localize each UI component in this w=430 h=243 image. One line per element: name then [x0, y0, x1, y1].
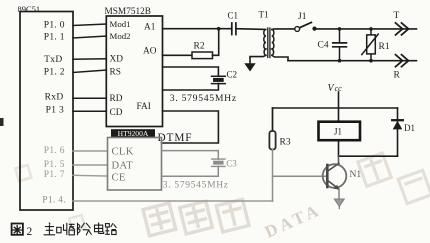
wire FAI to DTMF — [162, 111, 219, 143]
wire T1 primary to ground — [250, 55, 266, 63]
node junction R2/A1 — [217, 27, 221, 31]
svg-text:P1. 1: P1. 1 — [44, 33, 65, 43]
svg-text:RxD: RxD — [45, 93, 64, 103]
wire P1.5 to DAT (gray) — [73, 164, 108, 166]
svg-text:P1. 4.: P1. 4. — [42, 195, 66, 205]
svg-text:DTMF: DTMF — [158, 132, 193, 144]
svg-text:FAI: FAI — [137, 102, 151, 112]
watermark blobs — [15, 142, 430, 243]
IC HT9200A box (gray) — [108, 138, 162, 191]
wire D1 return — [339, 155, 398, 157]
svg-text:P1. 0: P1. 0 — [44, 21, 65, 31]
svg-text:CLK: CLK — [112, 147, 134, 158]
wire R3 to P1.4 (gray) — [272, 150, 274, 202]
crystal C2 — [212, 76, 226, 83]
wire P1.2 to RS — [73, 70, 106, 73]
svg-text:A1: A1 — [144, 23, 156, 33]
svg-text:R2: R2 — [194, 41, 205, 51]
svg-text:R: R — [394, 71, 401, 81]
resistor R2 — [192, 52, 213, 59]
svg-text:RD: RD — [110, 94, 123, 104]
diode D1 — [397, 108, 399, 156]
svg-text:R3: R3 — [280, 138, 291, 148]
svg-text:TxD: TxD — [44, 55, 62, 65]
svg-text:CE: CE — [112, 173, 126, 184]
varistor R1 — [369, 27, 373, 31]
caption: 图 2 主叫部分电路 — [12, 223, 117, 238]
svg-text:89C51: 89C51 — [18, 4, 41, 14]
svg-text:C4: C4 — [318, 41, 329, 51]
svg-text:T1: T1 — [259, 10, 269, 20]
svg-text:C3: C3 — [226, 158, 237, 168]
svg-text:R1: R1 — [379, 42, 390, 52]
wire top line to T — [317, 28, 417, 30]
resistor R3 — [272, 108, 274, 131]
wire J1 to collector node — [338, 140, 340, 156]
wire T1 secondary top to switch — [272, 28, 295, 31]
wire top rail — [273, 107, 398, 109]
crystal C3 upper wire (gray) — [162, 151, 219, 160]
MCU 89C51 box — [20, 12, 73, 211]
wire C1 to T1 — [236, 28, 265, 31]
svg-text:AO: AO — [143, 47, 157, 57]
svg-text:P1. 6: P1. 6 — [44, 146, 65, 156]
svg-text:D1: D1 — [404, 123, 415, 133]
svg-text:J1: J1 — [298, 12, 307, 22]
svg-text:3. 579545MHz: 3. 579545MHz — [170, 93, 237, 104]
wire Vcc down — [338, 92, 340, 122]
wire T1 secondary bottom — [272, 55, 288, 60]
wire P1.0 to Mod1 — [73, 24, 106, 26]
svg-text:P1. 5: P1. 5 — [44, 160, 65, 170]
svg-text:P1. 7: P1. 7 — [44, 170, 65, 180]
crystal C3 (gray) — [212, 159, 225, 166]
wire R2 to node — [213, 29, 219, 56]
svg-text:P1 3: P1 3 — [46, 106, 64, 116]
transistor N1 — [338, 156, 340, 164]
svg-text:MSM7512B: MSM7512B — [105, 7, 152, 17]
svg-text:DAT: DAT — [112, 161, 134, 172]
svg-text:2: 2 — [27, 226, 33, 238]
svg-text:T: T — [394, 11, 400, 21]
wire RxD to RD — [73, 97, 106, 99]
wire P1.3 to CD — [73, 110, 106, 112]
svg-text:Mod1: Mod1 — [110, 19, 131, 29]
wire base (gray) — [273, 175, 327, 177]
capacitor C4 — [338, 27, 342, 31]
wire TxD to XD — [73, 58, 106, 61]
wire bottom line to R — [288, 60, 417, 62]
svg-text:XD: XD — [110, 55, 124, 65]
svg-text:J1: J1 — [334, 127, 342, 137]
wire A0 to R2 — [163, 54, 193, 56]
svg-text:CD: CD — [110, 108, 123, 118]
crystal C3 lower wire (gray) — [162, 166, 219, 176]
IC HT9200A inverted label — [111, 129, 155, 137]
crystal C2 lower wire — [163, 84, 219, 90]
svg-text:Mod2: Mod2 — [110, 31, 131, 41]
wire P1.6 to CLK (gray) — [73, 150, 108, 152]
wire A1 to C1 — [163, 28, 232, 30]
wire emitter to ground (gray) — [338, 189, 340, 198]
wire P1.1 to Mod2 — [73, 36, 106, 38]
svg-text:3. 579545MHz: 3. 579545MHz — [163, 181, 229, 191]
ground (transformer primary) — [244, 63, 255, 71]
svg-text:HT9200A: HT9200A — [118, 129, 149, 138]
edge mark — [0, 118, 4, 126]
crystal C2 upper wire — [163, 67, 219, 76]
svg-text:N1: N1 — [350, 170, 362, 180]
wire P1.7 to CE (gray) — [73, 174, 108, 177]
ground (emitter) — [334, 199, 344, 207]
svg-text:C2: C2 — [227, 70, 238, 80]
capacitor C1 — [232, 23, 236, 35]
svg-text:RS: RS — [110, 68, 121, 78]
svg-text:C1: C1 — [228, 11, 239, 21]
modem IC MSM7512B box — [106, 16, 162, 127]
wire P1.4 long bottom (gray) — [73, 200, 273, 202]
svg-text:P1. 2: P1. 2 — [44, 68, 65, 78]
relay coil J1 box — [319, 122, 361, 141]
